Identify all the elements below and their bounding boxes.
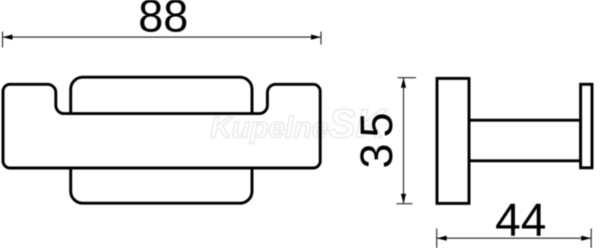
front view: wall plate — [71, 77, 252, 203]
dimension 44: extension tick left — [436, 229, 438, 248]
dimension 35: top arrowhead — [401, 78, 406, 88]
dimension 88: left arrowhead — [3, 35, 13, 40]
svg-text:44: 44 — [495, 194, 546, 246]
side view: arm — [469, 120, 581, 161]
dimension 44: right arrowhead — [581, 236, 591, 241]
front view: double-hook bar — [3, 84, 320, 168]
dimension 88: extension tick right — [320, 32, 322, 45]
dimension 35: line — [403, 78, 405, 204]
dimension 88: extension tick left — [2, 32, 4, 48]
svg-text:88: 88 — [138, 0, 188, 42]
dimension 35: bottom arrowhead — [401, 194, 406, 204]
dimension 44: left arrowhead — [437, 236, 447, 241]
side view: hook tip — [581, 84, 592, 168]
dimension 88: line — [3, 36, 322, 38]
dimension 88: right arrowhead — [311, 35, 321, 40]
dimension 44: line — [437, 237, 592, 239]
dimension 35: extension tick top — [398, 77, 417, 79]
side view: wall plate — [437, 78, 469, 203]
dimension 35: extension tick bottom — [397, 203, 413, 205]
dimension 44: extension tick right — [590, 229, 592, 248]
